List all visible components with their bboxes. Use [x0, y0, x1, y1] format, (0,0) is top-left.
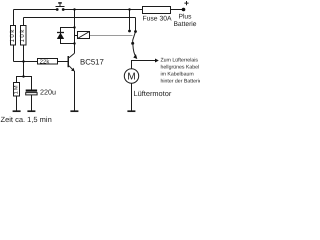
svg-text:10k: 10k: [9, 28, 16, 42]
svg-text:Zum Lüfterrelais: Zum Lüfterrelais: [161, 57, 199, 63]
svg-text:hellgrünes Kabel: hellgrünes Kabel: [161, 64, 200, 70]
svg-text:M: M: [127, 72, 135, 83]
svg-text:Batterie: Batterie: [173, 21, 196, 28]
svg-text:im Kabelbaum: im Kabelbaum: [161, 72, 194, 78]
svg-text:Lüftermotor: Lüftermotor: [134, 89, 172, 98]
svg-text:hinter der Batterie: hinter der Batterie: [161, 79, 201, 85]
svg-text:1M: 1M: [14, 84, 20, 94]
svg-text:22k: 22k: [40, 58, 51, 65]
svg-text:Plus: Plus: [178, 14, 192, 21]
svg-text:BC517: BC517: [80, 57, 104, 66]
svg-text:10k: 10k: [19, 28, 26, 42]
svg-text:Fuse 30A: Fuse 30A: [142, 15, 172, 22]
svg-text:Zeit ca. 1,5 min: Zeit ca. 1,5 min: [1, 115, 52, 124]
svg-text:220u: 220u: [40, 87, 56, 96]
